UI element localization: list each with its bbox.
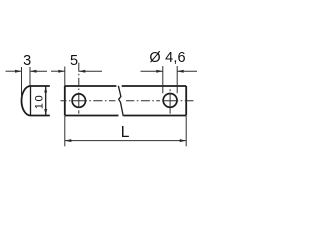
svg-text:10: 10 <box>34 94 46 109</box>
svg-text:3: 3 <box>23 53 31 69</box>
svg-text:Ø 4,6: Ø 4,6 <box>149 50 185 66</box>
svg-text:5: 5 <box>70 53 78 69</box>
svg-text:L: L <box>121 124 130 141</box>
